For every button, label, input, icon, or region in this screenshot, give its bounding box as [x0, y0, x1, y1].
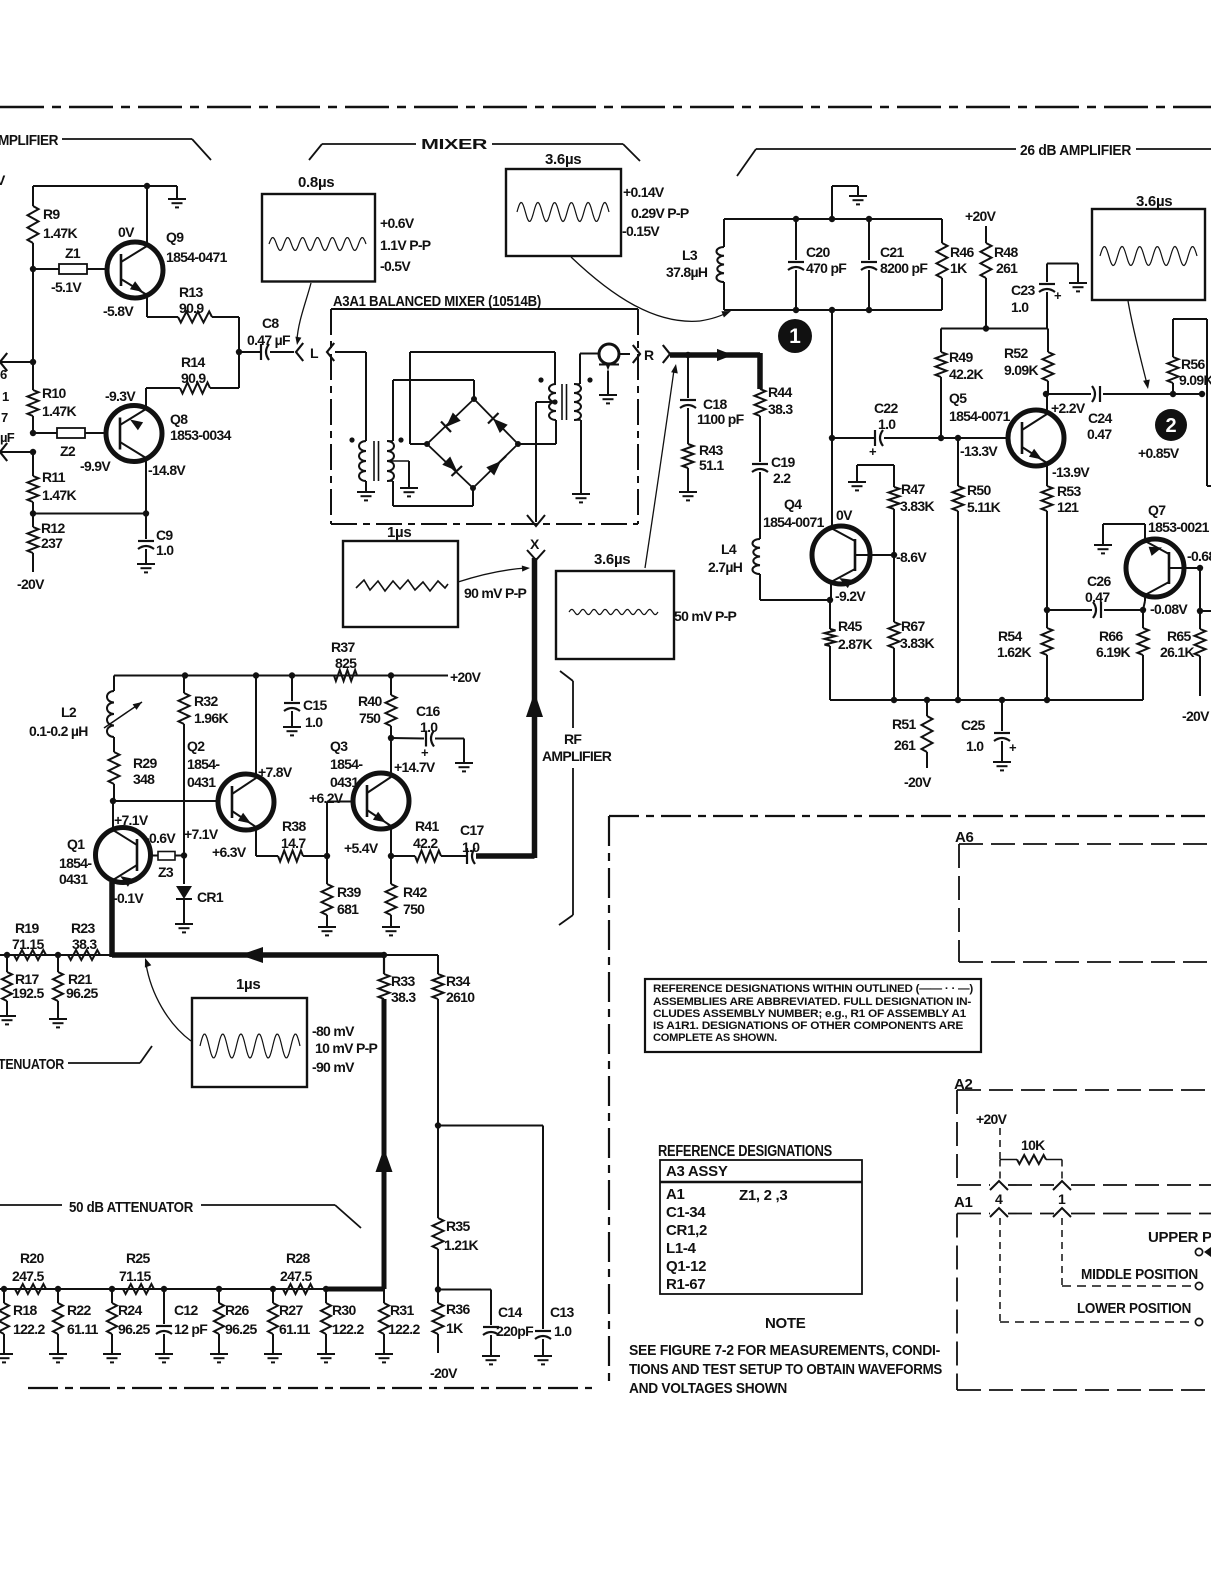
resistor R20 — [12, 1250, 46, 1294]
svg-text:121: 121 — [1057, 499, 1079, 515]
svg-text:R10: R10 — [42, 385, 66, 401]
node R35/R36/C14 — [435, 1286, 441, 1292]
svg-text:+0.6V: +0.6V — [380, 215, 415, 231]
resistor R42 — [382, 856, 427, 935]
resistor R10 — [28, 362, 77, 433]
label +20V top — [965, 208, 997, 224]
zener Z2 — [33, 428, 111, 474]
node rail-433 — [30, 430, 36, 436]
wire switch pin1 lower — [1062, 1218, 1194, 1286]
svg-text:Q1: Q1 — [67, 836, 85, 852]
assembly A2 dashed box — [954, 1076, 1211, 1185]
thick wire signal bus — [112, 947, 384, 963]
capacitor C9 — [137, 514, 174, 573]
svg-text:R67: R67 — [901, 618, 925, 634]
svg-text:R47: R47 — [901, 481, 925, 497]
svg-text:A3A1 BALANCED MIXER (10514B): A3A1 BALANCED MIXER (10514B) — [333, 293, 541, 310]
svg-text:C15: C15 — [303, 697, 327, 713]
resistor R38 — [278, 818, 327, 862]
label NOTE — [765, 1315, 806, 1332]
wire T2 secondary bottom to ground — [572, 420, 590, 502]
wire Q3 collector — [390, 738, 392, 777]
svg-text:1.0: 1.0 — [554, 1323, 572, 1339]
resistor R32 — [179, 676, 229, 856]
tank circuit top rail — [724, 216, 942, 222]
svg-text:6.19K: 6.19K — [1096, 644, 1130, 660]
svg-text:61.11: 61.11 — [279, 1321, 311, 1337]
svg-text:+0.14V: +0.14V — [623, 184, 665, 200]
capacitor C18 — [680, 355, 745, 444]
scope waveform box 1us attenuator — [192, 976, 378, 1087]
diode bridge bottom-left — [442, 457, 462, 477]
svg-text:C12: C12 — [174, 1302, 198, 1318]
transistor Q3 — [330, 738, 436, 856]
svg-text:90.9: 90.9 — [179, 300, 204, 316]
svg-text:122.2: 122.2 — [388, 1321, 420, 1337]
svg-text:UPPER POSIT: UPPER POSIT — [1148, 1229, 1211, 1246]
svg-text:REFERENCE DESIGNATIONS WITHIN: REFERENCE DESIGNATIONS WITHIN OUTLINED (… — [653, 983, 973, 995]
connector R — [633, 345, 670, 363]
node rail-362 — [30, 359, 36, 365]
svg-text:SEE FIGURE 7-2 FOR MEASUREMENT: SEE FIGURE 7-2 FOR MEASUREMENTS, CONDI- — [629, 1343, 940, 1359]
edge fragment label V — [0, 172, 6, 188]
svg-text:Q8: Q8 — [170, 411, 188, 427]
assembly A3 right/bottom dash-dot border — [28, 816, 1205, 1388]
svg-text:+2.2V: +2.2V — [1051, 400, 1086, 416]
svg-text:+20V: +20V — [965, 208, 997, 224]
edge connector arrows left — [0, 353, 33, 461]
svg-text:61.11: 61.11 — [67, 1321, 99, 1337]
svg-text:1: 1 — [789, 325, 801, 348]
svg-text:71.15: 71.15 — [12, 936, 44, 952]
svg-text:+: + — [1054, 288, 1062, 303]
svg-text:1.0: 1.0 — [420, 719, 438, 735]
capacitor C20 — [788, 219, 847, 310]
resistor R29 — [109, 737, 158, 801]
resistor R51 — [892, 700, 933, 790]
svg-text:AND VOLTAGES SHOWN: AND VOLTAGES SHOWN — [629, 1381, 787, 1397]
svg-text:RF: RF — [564, 731, 582, 747]
svg-text:Q3: Q3 — [330, 738, 348, 754]
wire Q5 emitter — [1046, 463, 1048, 486]
svg-text:C22: C22 — [874, 400, 898, 416]
node bus R33/R34 — [381, 952, 438, 958]
wire T1 center tap to ground — [387, 461, 418, 496]
svg-text:0.47: 0.47 — [1087, 426, 1112, 442]
label +0.85V — [1138, 445, 1180, 461]
svg-text:IS A1R1. DESIGNATIONS OF OTHE: IS A1R1. DESIGNATIONS OF OTHER COMPONENT… — [653, 1020, 964, 1032]
svg-text:0.47 µF: 0.47 µF — [247, 332, 291, 348]
leader 3.6us small box to R node — [645, 364, 678, 568]
wire Q9 emitter — [147, 295, 178, 317]
svg-text:AMPLIFIER: AMPLIFIER — [542, 748, 612, 764]
capacitor C23 — [1011, 264, 1087, 329]
svg-text:LOWER POSITION: LOWER POSITION — [1077, 1300, 1191, 1317]
svg-text:1.0: 1.0 — [966, 738, 984, 754]
svg-text:C9: C9 — [156, 527, 173, 543]
svg-text:+: + — [869, 444, 877, 459]
svg-text:-9.9V: -9.9V — [80, 458, 111, 474]
svg-text:3.6µs: 3.6µs — [594, 551, 630, 568]
svg-text:1854-: 1854- — [59, 855, 92, 871]
leader 1us box to X line — [458, 566, 530, 583]
svg-text:NOTE: NOTE — [765, 1315, 806, 1332]
svg-text:-20V: -20V — [17, 576, 45, 592]
svg-text:1853-0021: 1853-0021 — [1148, 519, 1210, 535]
svg-text:1.0: 1.0 — [156, 542, 174, 558]
svg-text:R56: R56 — [1181, 356, 1205, 372]
svg-text:MIXER: MIXER — [421, 136, 488, 153]
zener Z3 — [145, 830, 184, 880]
svg-text:R19: R19 — [15, 920, 39, 936]
capacitor C13 — [534, 1126, 574, 1365]
wire T1 secondary bottom — [387, 481, 473, 506]
svg-text:122.2: 122.2 — [332, 1321, 364, 1337]
svg-text:-9.2V: -9.2V — [835, 588, 866, 604]
svg-text:6: 6 — [0, 367, 7, 382]
label +7.1V node — [184, 826, 219, 842]
svg-text:+20V: +20V — [976, 1111, 1008, 1127]
svg-text:96.25: 96.25 — [66, 985, 98, 1001]
svg-text:348: 348 — [133, 771, 155, 787]
svg-text:9.09K: 9.09K — [1179, 372, 1211, 388]
svg-text:R41: R41 — [415, 818, 439, 834]
wire Q2 collector — [255, 676, 257, 778]
svg-text:R31: R31 — [390, 1302, 414, 1318]
svg-text:38.3: 38.3 — [768, 401, 793, 417]
svg-text:1.47K: 1.47K — [43, 225, 77, 241]
resistor R50 — [953, 438, 1001, 700]
svg-text:R37: R37 — [331, 639, 355, 655]
resistor R30 — [317, 1289, 364, 1362]
svg-text:3.6µs: 3.6µs — [545, 151, 581, 168]
svg-text:0.47: 0.47 — [1085, 589, 1110, 605]
svg-text:L2: L2 — [61, 704, 77, 720]
wire Q9 collector — [146, 186, 148, 245]
capacitor C15 — [283, 676, 327, 736]
svg-text:-80 mV: -80 mV — [312, 1023, 355, 1039]
resistor R24 — [103, 1289, 150, 1362]
svg-text:-13.9V: -13.9V — [1052, 464, 1090, 480]
switch contact middle position — [1081, 1266, 1203, 1290]
inductor L3 — [666, 219, 724, 310]
svg-text:R53: R53 — [1057, 483, 1081, 499]
svg-text:192.5: 192.5 — [12, 985, 44, 1001]
svg-text:1.0: 1.0 — [462, 839, 480, 855]
svg-text:+7.8V: +7.8V — [258, 764, 293, 780]
svg-text:1.47K: 1.47K — [42, 403, 76, 419]
node C22 left — [829, 435, 835, 441]
wire base line Q2 — [113, 800, 218, 802]
svg-text:C13: C13 — [550, 1304, 574, 1320]
svg-text:-0.6V: -0.6V — [145, 830, 176, 846]
svg-text:R34: R34 — [446, 973, 470, 989]
svg-text:3.6µs: 3.6µs — [1136, 193, 1172, 210]
svg-text:C8: C8 — [262, 315, 279, 331]
resistor R11 — [28, 452, 77, 514]
section label AMPLIFIER (cut at page edge) — [0, 132, 211, 160]
svg-text:1100 pF: 1100 pF — [697, 411, 745, 427]
thick wire RF output to X — [476, 558, 543, 858]
svg-text:+: + — [1009, 740, 1017, 755]
svg-text:1853-0034: 1853-0034 — [170, 427, 232, 443]
wire pin4 dashed upper — [999, 1160, 1001, 1180]
svg-text:R23: R23 — [71, 920, 95, 936]
node R38/R39/Q3 base — [324, 853, 330, 859]
assembly A3 top dash-dot border — [0, 106, 1211, 108]
section label MIXER with brace — [309, 136, 640, 161]
svg-text:-13.3V: -13.3V — [960, 443, 998, 459]
wire T2 secondary top to R node — [574, 354, 600, 385]
svg-text:R39: R39 — [337, 884, 361, 900]
capacitor C16 — [391, 703, 473, 771]
resistor R27 — [264, 1289, 311, 1362]
resistor R40 — [358, 676, 397, 739]
resistor R13 — [178, 284, 212, 323]
svg-text:R33: R33 — [391, 973, 415, 989]
svg-text:+5.4V: +5.4V — [344, 840, 379, 856]
brace RF AMPLIFIER — [542, 671, 612, 925]
resistor R19 — [12, 920, 46, 960]
svg-text:220pF: 220pF — [496, 1323, 534, 1339]
svg-text:L3: L3 — [682, 247, 698, 263]
wire R13 to C8 node — [212, 317, 239, 352]
wire Q1 collector — [112, 801, 114, 830]
svg-text:+7.1V: +7.1V — [184, 826, 219, 842]
svg-text:0V: 0V — [836, 507, 853, 523]
node Q3 collector/C16 — [388, 735, 394, 741]
svg-text:1.0: 1.0 — [1011, 299, 1029, 315]
svg-text:A1: A1 — [954, 1194, 973, 1211]
wire +20V rail RF amp — [114, 669, 482, 685]
mixer box dash-dot outline — [331, 309, 638, 524]
svg-text:C21: C21 — [880, 244, 904, 260]
resistor R54 — [997, 610, 1053, 700]
svg-text:26.1K: 26.1K — [1160, 644, 1194, 660]
svg-text:+6.2V: +6.2V — [309, 790, 344, 806]
wire Q4 base — [856, 552, 897, 558]
resistor R65 — [1160, 568, 1210, 724]
svg-text:2.2: 2.2 — [773, 470, 791, 486]
svg-text:1.62K: 1.62K — [997, 644, 1031, 660]
diode bridge bottom-right — [486, 456, 506, 476]
svg-text:750: 750 — [403, 901, 425, 917]
svg-text:122.2: 122.2 — [13, 1321, 45, 1337]
wire -20V rail 26dB amp — [830, 697, 1143, 703]
svg-text:1K: 1K — [950, 260, 967, 276]
resistor R53 — [1042, 483, 1082, 610]
svg-text:8200 pF: 8200 pF — [880, 260, 928, 276]
wire Q3 base — [309, 790, 353, 856]
svg-text:2.7µH: 2.7µH — [708, 559, 743, 575]
svg-text:1.47K: 1.47K — [42, 487, 76, 503]
svg-text:1.0: 1.0 — [305, 714, 323, 730]
svg-text:-0.5V: -0.5V — [380, 258, 411, 274]
svg-text:R50: R50 — [967, 482, 991, 498]
wire Q5 collector — [1043, 391, 1049, 413]
svg-text:1854-0071: 1854-0071 — [949, 408, 1011, 424]
svg-text:CR1: CR1 — [197, 889, 224, 905]
svg-text:-5.8V: -5.8V — [103, 303, 134, 319]
svg-text:C18: C18 — [703, 396, 727, 412]
resistor 10K A2 — [1000, 1137, 1062, 1164]
svg-text:0.1-0.2 µH: 0.1-0.2 µH — [29, 723, 88, 739]
capacitor C8 — [239, 315, 294, 360]
ground top-left — [168, 186, 186, 207]
svg-text:96.25: 96.25 — [118, 1321, 150, 1337]
scope waveform box 3.6us mixer output — [506, 151, 689, 256]
scope waveform box 3.6us RF small — [556, 551, 737, 659]
svg-text:A1: A1 — [666, 1186, 685, 1203]
resistor R31 — [375, 1289, 420, 1362]
wire tank to Q4 collector — [831, 310, 833, 527]
resistor R35 — [433, 1126, 479, 1290]
svg-text:26 dB AMPLIFIER: 26 dB AMPLIFIER — [1020, 142, 1131, 159]
label -20V left rail — [17, 576, 45, 592]
wire circle to R connector — [619, 353, 631, 355]
label A3A1 BALANCED MIXER (10514B) — [333, 293, 541, 310]
svg-text:261: 261 — [996, 260, 1018, 276]
svg-text:R24: R24 — [118, 1302, 142, 1318]
connector pin 4 — [990, 1181, 1008, 1217]
svg-text:1K: 1K — [446, 1320, 463, 1336]
svg-text:10 mV P-P: 10 mV P-P — [315, 1040, 378, 1056]
svg-text:R52: R52 — [1004, 345, 1028, 361]
capacitor C22 — [832, 400, 1008, 459]
resistor R36 — [430, 1290, 470, 1382]
svg-text:R30: R30 — [332, 1302, 356, 1318]
svg-text:-14.8V: -14.8V — [148, 462, 186, 478]
svg-text:MIDDLE POSITION: MIDDLE POSITION — [1081, 1266, 1198, 1283]
svg-text:38.3: 38.3 — [391, 989, 416, 1005]
scope waveform box 0.8us — [262, 174, 431, 282]
scope waveform box 3.6us amplifier — [1092, 193, 1205, 300]
svg-text:825: 825 — [335, 655, 357, 671]
svg-text:R35: R35 — [446, 1218, 470, 1234]
svg-text:14.7: 14.7 — [281, 835, 306, 851]
svg-text:1.1V P-P: 1.1V P-P — [380, 237, 431, 253]
svg-text:R29: R29 — [133, 755, 157, 771]
balloon marker 1 — [778, 319, 812, 353]
svg-text:C24: C24 — [1088, 410, 1112, 426]
connector pin 1 — [1053, 1181, 1071, 1217]
svg-text:1854-0071: 1854-0071 — [763, 514, 825, 530]
switch contact upper position — [1148, 1229, 1211, 1257]
wire input bus thin — [0, 954, 112, 956]
svg-text:3.83K: 3.83K — [900, 498, 934, 514]
svg-text:R40: R40 — [358, 693, 382, 709]
svg-text:-20V: -20V — [430, 1365, 458, 1381]
label +7.1V left — [114, 812, 149, 828]
svg-text:L1-4: L1-4 — [666, 1240, 697, 1257]
svg-text:237: 237 — [41, 535, 63, 551]
diode ring bridge — [424, 396, 521, 491]
svg-text:38.3: 38.3 — [72, 936, 97, 952]
wire +20V rail 26dB amp — [941, 325, 1048, 331]
assembly A6 dashed box — [955, 829, 1211, 962]
svg-text:R11: R11 — [42, 469, 66, 485]
svg-text:0431: 0431 — [330, 774, 359, 790]
resistor R26 — [210, 1289, 257, 1362]
capacitor C25 — [961, 700, 1017, 770]
node rail-452 — [30, 449, 36, 455]
node C18 tap — [685, 352, 691, 358]
capacitor C26 — [1047, 573, 1143, 618]
svg-text:R20: R20 — [20, 1250, 44, 1266]
wire rail R9 to Z1 node — [30, 243, 36, 362]
resistor R28 — [280, 1250, 313, 1294]
thick wire Q1 emitter — [109, 882, 115, 957]
thick signal path R to R44 — [670, 349, 760, 389]
svg-text:Z1, 2 ,3: Z1, 2 ,3 — [739, 1187, 787, 1204]
svg-text:42.2: 42.2 — [413, 835, 438, 851]
label REFERENCE DESIGNATIONS table — [658, 1143, 832, 1160]
leader from 0.8us box to L input — [295, 283, 311, 345]
label +20V A2 — [976, 1111, 1008, 1127]
svg-text:-20V: -20V — [1182, 708, 1210, 724]
node page edge C24 line — [1199, 391, 1205, 397]
balloon marker 2 — [1155, 409, 1187, 441]
svg-text:R43: R43 — [699, 442, 723, 458]
svg-text:C16: C16 — [416, 703, 440, 719]
resistor R44 — [755, 384, 794, 417]
section label 50 dB ATTENUATOR with brace — [0, 1199, 361, 1228]
svg-text:Q2: Q2 — [187, 738, 205, 754]
svg-text:MPLIFIER: MPLIFIER — [0, 132, 59, 149]
svg-text:Q4: Q4 — [784, 496, 802, 512]
svg-text:Z1: Z1 — [65, 245, 81, 261]
node top-rail junction — [144, 183, 150, 189]
node y610 left — [1044, 607, 1050, 613]
resistor R9 — [28, 206, 78, 243]
svg-text:C26: C26 — [1087, 573, 1111, 589]
resistor R41 — [413, 818, 466, 862]
svg-text:CR1,2: CR1,2 — [666, 1222, 707, 1239]
svg-text:C20: C20 — [806, 244, 830, 260]
wire pin1 dashed upper — [1061, 1160, 1063, 1180]
svg-text:-9.3V: -9.3V — [105, 388, 136, 404]
ground Q7 emitter elbow — [1094, 524, 1145, 553]
switch contact lower position — [1077, 1300, 1203, 1326]
svg-text:R: R — [644, 347, 654, 363]
svg-text:R26: R26 — [225, 1302, 249, 1318]
svg-text:90 mV P-P: 90 mV P-P — [464, 585, 527, 601]
svg-text:0V: 0V — [118, 224, 135, 240]
wire attenuator chain — [0, 1286, 329, 1292]
svg-text:L: L — [310, 345, 319, 361]
svg-text:Q1-12: Q1-12 — [666, 1258, 706, 1275]
svg-text:C19: C19 — [771, 454, 795, 470]
resistor R34 — [433, 955, 476, 1126]
svg-text:+6.3V: +6.3V — [212, 844, 247, 860]
svg-text:4: 4 — [995, 1191, 1003, 1207]
resistor R47 — [889, 465, 935, 555]
tank circuit bottom rail — [724, 307, 942, 313]
wire T1 secondary top — [387, 380, 474, 441]
svg-text:-0.08V: -0.08V — [1150, 601, 1188, 617]
svg-text:-8.6V: -8.6V — [896, 549, 927, 565]
svg-text:0.29V P-P: 0.29V P-P — [631, 205, 689, 221]
svg-text:50 dB ATTENUATOR: 50 dB ATTENUATOR — [69, 1199, 193, 1216]
svg-text:750: 750 — [359, 710, 381, 726]
svg-text:50 mV P-P: 50 mV P-P — [674, 608, 737, 624]
assembly A1 dashed box — [954, 1194, 1211, 1390]
resistor R46 — [937, 219, 975, 310]
svg-text:Z2: Z2 — [60, 443, 76, 459]
node R13/R14 junction — [236, 349, 242, 355]
svg-text:C23: C23 — [1011, 282, 1035, 298]
svg-text:7: 7 — [1, 410, 8, 425]
